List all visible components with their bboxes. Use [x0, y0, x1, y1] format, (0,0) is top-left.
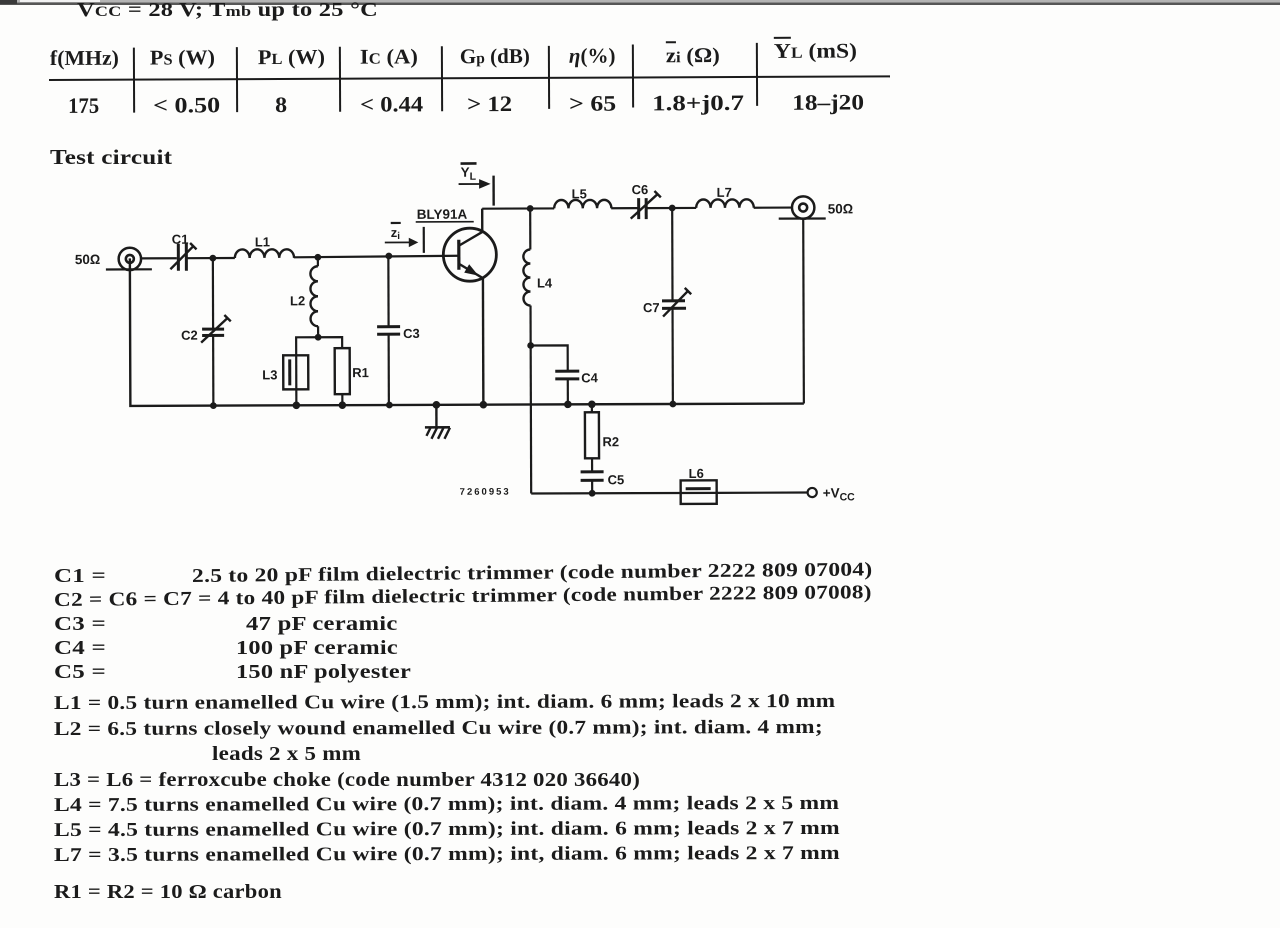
wire L4 node down to VCC rail (crosses ground rail) — [530, 345, 533, 493]
junction C4/rail — [564, 401, 572, 409]
junction L4 bottom — [527, 342, 534, 349]
node at base / C3 — [385, 253, 392, 260]
wire split to L3 and R1 — [296, 337, 342, 355]
svg-text:7260953: 7260953 — [460, 487, 511, 498]
resistor note — [54, 882, 282, 904]
ground rail — [130, 256, 804, 406]
capacitor C5 — [581, 472, 625, 494]
capacitor C3 — [377, 326, 420, 341]
svg-text:zi: zi — [391, 225, 401, 242]
capacitor C1 (trimmer) — [170, 232, 196, 271]
junction C3/rail — [386, 402, 393, 409]
svg-text:C1: C1 — [172, 232, 189, 247]
wire node A down to C2 — [212, 258, 214, 328]
component list: inductors — [54, 691, 835, 715]
capacitor C4 — [555, 370, 599, 404]
svg-text:L4: L4 — [537, 275, 553, 290]
junction C2/rail — [210, 402, 217, 409]
inductor L3 (ferroxcube choke) — [262, 355, 308, 405]
table headers — [50, 46, 119, 71]
svg-text:50Ω: 50Ω — [828, 201, 853, 216]
junction collector/L4 — [527, 205, 534, 212]
output port 50 ohm connector — [779, 196, 853, 219]
wire C2 to ground rail — [212, 336, 214, 405]
wire L4 node to C4 — [531, 345, 568, 370]
wire L1 to base node — [294, 256, 459, 258]
input port 50 ohm connector — [75, 248, 152, 271]
inductor L4 — [523, 208, 553, 345]
capacitor C7 (trimmer) — [643, 288, 691, 317]
capacitor C2 (trimmer) — [181, 315, 231, 343]
VCC feed rail — [531, 491, 807, 494]
ground symbol — [425, 405, 450, 439]
svg-text:R1: R1 — [352, 365, 369, 380]
junction C7/rail — [669, 401, 676, 408]
table header rule — [49, 75, 890, 81]
inductor L1 — [235, 234, 294, 258]
svg-text:C7: C7 — [643, 300, 660, 315]
wire C1 to node A — [187, 257, 234, 259]
wire connector to C1 — [141, 257, 177, 259]
zi input impedance marker — [385, 223, 424, 253]
wire C6 node down to C7 — [671, 208, 674, 300]
svg-text:BLY91A: BLY91A — [417, 207, 468, 222]
junction L3/rail — [293, 402, 301, 410]
svg-text:L6: L6 — [689, 466, 704, 481]
table column separators — [133, 48, 135, 113]
top condition line — [77, 0, 378, 22]
inductor L2 — [290, 257, 318, 337]
collector top wire — [482, 208, 791, 209]
node at top of L2 — [314, 254, 321, 261]
svg-text:L5: L5 — [572, 186, 587, 201]
svg-text:L2: L2 — [290, 293, 305, 308]
inductor L7 — [696, 185, 754, 208]
+VCC terminal — [808, 485, 856, 503]
inductor L6 (ferroxcube choke) — [681, 466, 717, 504]
table values row — [68, 93, 99, 119]
junction emitter/rail — [480, 401, 488, 409]
svg-text:C3: C3 — [403, 326, 420, 341]
junction C6 node — [669, 205, 676, 212]
resistor R1 — [335, 348, 369, 405]
svg-text:R2: R2 — [602, 434, 619, 449]
svg-text:C6: C6 — [632, 182, 649, 197]
wire C3 to rail — [388, 334, 390, 405]
svg-text:C2: C2 — [181, 328, 198, 343]
wire node down to C3 — [387, 256, 389, 326]
junction R2/rail — [588, 400, 596, 408]
junction ground stub — [433, 401, 441, 409]
heading — [50, 145, 172, 170]
node under L2 — [315, 334, 322, 341]
svg-text:C4: C4 — [581, 370, 598, 385]
svg-text:50Ω: 50Ω — [75, 252, 100, 267]
inductor L5 — [554, 186, 611, 208]
capacitor C6 (trimmer) — [631, 182, 661, 219]
YL load admittance marker — [459, 163, 494, 205]
node A junction — [209, 255, 216, 262]
svg-text:YL: YL — [461, 165, 477, 183]
svg-text:C5: C5 — [608, 472, 625, 487]
wire output connector down to rail — [802, 218, 805, 403]
junction C5/VCC rail — [589, 490, 596, 497]
resistor R2 — [585, 404, 619, 471]
svg-text:L7: L7 — [717, 185, 732, 200]
wire C7 to rail — [671, 308, 674, 404]
transistor Q1 BLY91A — [416, 207, 497, 405]
svg-text:L1: L1 — [255, 234, 270, 249]
top scan edge artifact — [0, 0, 1280, 5]
svg-text:+VCC: +VCC — [823, 485, 856, 503]
junction R1/rail — [339, 401, 347, 409]
svg-text:L3: L3 — [262, 367, 277, 382]
component list: capacitors — [54, 566, 106, 588]
